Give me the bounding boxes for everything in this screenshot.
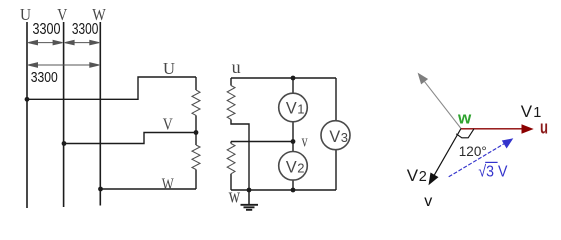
svg-text:v: v <box>302 131 308 150</box>
svg-text:w: w <box>457 108 472 127</box>
svg-text:3300: 3300 <box>72 21 99 38</box>
svg-text:V: V <box>329 127 340 146</box>
svg-text:2: 2 <box>297 160 304 175</box>
svg-text:W: W <box>162 175 175 194</box>
svg-text:V: V <box>286 98 297 117</box>
svg-text:√3 V: √3 V <box>478 163 507 180</box>
svg-text:u: u <box>540 118 548 138</box>
svg-text:3300: 3300 <box>31 70 58 86</box>
svg-text:u: u <box>232 57 241 77</box>
svg-text:3: 3 <box>341 130 348 145</box>
svg-text:V: V <box>521 102 533 121</box>
svg-text:V: V <box>163 115 174 134</box>
svg-text:U: U <box>163 59 175 78</box>
svg-text:2: 2 <box>419 169 427 185</box>
svg-text:1: 1 <box>297 101 304 116</box>
svg-text:w: w <box>229 182 241 207</box>
svg-text:120°: 120° <box>459 144 487 159</box>
svg-text:V: V <box>407 166 419 185</box>
svg-text:U: U <box>20 5 31 24</box>
svg-text:3300: 3300 <box>33 21 61 38</box>
svg-text:v: v <box>424 193 432 210</box>
svg-text:V: V <box>286 157 297 176</box>
